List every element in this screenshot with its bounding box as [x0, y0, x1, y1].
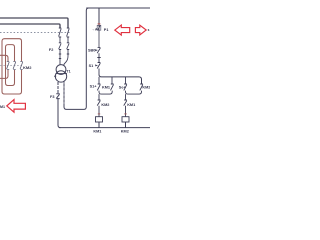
- svg-text:KM1: KM1: [102, 85, 110, 89]
- transformer T1 bottom coil: [55, 71, 66, 82]
- svg-text:s: s: [148, 28, 150, 32]
- coil KM1: [96, 117, 103, 122]
- wire reversing loop outer: [2, 39, 22, 94]
- svg-text:KM2: KM2: [142, 85, 150, 89]
- button S1: [96, 63, 101, 75]
- branch B pair: [124, 77, 143, 94]
- switch QS pole 2: [67, 28, 70, 43]
- svg-text:F2: F2: [49, 48, 53, 52]
- svg-text:S1+: S1+: [90, 84, 98, 88]
- svg-text:KM2: KM2: [121, 129, 129, 133]
- wire column A top: [98, 8, 100, 25]
- contactor KM2 main contact 3: [20, 62, 23, 70]
- tick T1 left: [54, 75, 56, 77]
- svg-text:T1: T1: [66, 69, 70, 73]
- tick above coil B: [124, 113, 126, 115]
- wire coil B to rail: [125, 122, 127, 128]
- wire KM2 linkage dashed: [0, 64, 22, 66]
- wire QS linkage dashed: [0, 32, 70, 34]
- wire coil A to rail: [98, 122, 100, 128]
- interlock KM1 (branch B): [124, 94, 127, 117]
- svg-text:KM1: KM1: [127, 103, 135, 107]
- svg-text:M1: M1: [0, 105, 5, 109]
- svg-text:F3: F3: [50, 95, 54, 99]
- transformer T1 top coil: [56, 65, 66, 75]
- arrow right top: [135, 25, 146, 35]
- svg-text:P1: P1: [104, 28, 109, 32]
- branch A pair: [97, 77, 113, 94]
- fuse F2 pole 2: [64, 43, 70, 66]
- switch QS pole 1: [59, 28, 62, 43]
- arrow left top: [115, 25, 130, 35]
- tick above coil A: [98, 113, 100, 115]
- svg-text:KM2: KM2: [23, 65, 32, 70]
- fuse P1: [97, 25, 101, 30]
- arrow left bottom: [7, 100, 26, 113]
- wire L1: [0, 18, 68, 28]
- wire secondary right to control: [64, 8, 89, 109]
- contactor KM2 main contact 2: [13, 62, 16, 70]
- coil KM2: [122, 117, 129, 122]
- svg-text:Se+: Se+: [119, 85, 127, 89]
- svg-text:SB0: SB0: [88, 48, 95, 52]
- wire reversing loop middle: [6, 45, 15, 86]
- svg-text:KM2: KM2: [101, 103, 109, 107]
- svg-text:S1: S1: [89, 64, 94, 68]
- red tick P1: [98, 23, 101, 25]
- wire reversing loop inner: [0, 55, 8, 78]
- wire L2: [0, 24, 60, 28]
- fuse F2 pole 1: [59, 43, 62, 65]
- svg-text:→A: →A: [92, 28, 98, 32]
- transformer center bar: [56, 73, 67, 75]
- wire branch row: [99, 75, 142, 84]
- wire secondary left with fuse F3: [57, 82, 59, 94]
- interlock KM2 (branch A): [97, 94, 100, 117]
- wire top rail: [86, 7, 150, 9]
- button SB0: [96, 47, 101, 62]
- svg-text:KM1: KM1: [93, 129, 101, 133]
- wire bottom rail: [59, 127, 150, 129]
- contactor KM2 main contact 1: [7, 62, 10, 70]
